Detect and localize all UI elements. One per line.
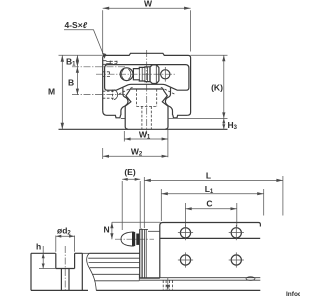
inner end plate outline (seal profile) <box>105 65 189 91</box>
plate mounting holes (crosshairs) <box>178 225 193 240</box>
dimension W2 <box>103 147 168 159</box>
rail cross-section <box>125 89 168 129</box>
dimension ød2 <box>56 226 75 252</box>
dimension h <box>36 242 56 269</box>
rail bolt hole hidden lines <box>137 89 157 129</box>
label 4-S×ℓ with leader <box>64 20 106 59</box>
svg-text:N: N <box>104 224 110 234</box>
svg-text:C: C <box>206 199 212 209</box>
extension line right for K/H3 at 118.4 <box>168 117 228 119</box>
seal skirt line y=118.4 <box>121 117 125 119</box>
rail side lines right of break <box>88 253 260 290</box>
dimension N <box>104 222 161 239</box>
grease port section (cluster b) <box>103 72 110 77</box>
tapped hole section top-left (cluster a) <box>103 61 118 65</box>
dimension B1 <box>66 55 79 67</box>
svg-text:(E): (E) <box>124 167 136 177</box>
dimension W <box>103 0 191 53</box>
nipple centerline (side view) <box>115 238 154 240</box>
wavy break line <box>87 253 97 290</box>
dimension (E) <box>122 167 140 230</box>
end plate lower lip wings <box>119 87 174 94</box>
dimension L <box>144 171 283 229</box>
block outline (front view) <box>103 53 191 118</box>
dimension W1 <box>124 129 168 157</box>
extension of top edge to K line <box>191 54 228 56</box>
dimension H3 <box>222 118 237 130</box>
grease nipple (side view) <box>121 232 139 246</box>
centerline vertical of front view <box>146 50 148 134</box>
small lens mark on bottom line pair <box>246 277 255 281</box>
table / ground line <box>59 128 228 130</box>
block inner leg profiles <box>121 88 173 116</box>
block (side view) left end + seals <box>140 229 160 278</box>
top plate (plan of rail) <box>160 223 261 278</box>
svg-text:(K): (K) <box>211 83 223 93</box>
dimension B <box>68 67 79 95</box>
centerline of grease nipple row <box>96 73 175 75</box>
dimension (K) <box>211 55 225 118</box>
centerline hole row a <box>72 66 126 68</box>
svg-text:B: B <box>68 78 74 88</box>
hidden hole lines below rail bottom left <box>163 278 172 291</box>
svg-text:M: M <box>48 87 55 97</box>
svg-text:W: W <box>144 0 153 9</box>
side hole section (cluster c) <box>103 90 118 100</box>
svg-text:4-S×ℓ: 4-S×ℓ <box>65 20 88 30</box>
centerline hole row c <box>72 94 127 96</box>
svg-text:h: h <box>36 242 41 252</box>
grease nipple (front view) <box>120 65 159 84</box>
rail side elevation: left sectioned part <box>31 246 90 290</box>
svg-text:Infoq: Infoq <box>286 291 300 298</box>
tapped hole circle (front view) <box>161 67 170 82</box>
dimension M <box>48 55 103 129</box>
dimension C <box>185 199 236 227</box>
svg-text:L: L <box>206 171 211 181</box>
dimension L1 <box>161 184 263 221</box>
